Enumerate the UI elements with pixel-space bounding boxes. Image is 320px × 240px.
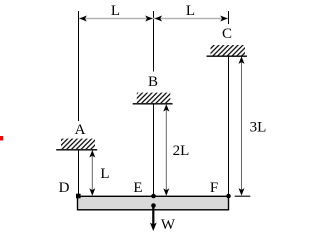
weight W arrow shaft bbox=[152, 206, 154, 226]
arrowhead top-left pointing left bbox=[79, 16, 87, 22]
dimension 3L bottom extension tick bbox=[235, 195, 251, 197]
svg-text:W: W bbox=[161, 217, 176, 233]
dimension 3L arrow up bbox=[239, 56, 245, 64]
extension tick right (x=228.5) bbox=[228, 11, 230, 24]
joint D square dot bbox=[76, 194, 81, 199]
extension line left (x=78.5) bbox=[78, 11, 80, 121]
svg-text:D: D bbox=[59, 180, 70, 196]
support A hatch bbox=[61, 139, 95, 149]
joint E round dot bbox=[151, 194, 156, 199]
top dimension line (gray) bbox=[79, 18, 228, 20]
red marker left edge bbox=[0, 136, 3, 141]
support C hatch bbox=[211, 45, 246, 56]
support B ceiling line bbox=[133, 103, 173, 105]
arrowhead first-L right pointing right bbox=[145, 16, 153, 22]
svg-text:L: L bbox=[186, 3, 195, 19]
rod C (F) bbox=[228, 57, 230, 197]
joint F round dot bbox=[226, 194, 231, 199]
svg-text:L: L bbox=[100, 166, 109, 182]
support C ceiling line bbox=[207, 55, 248, 57]
svg-text:3L: 3L bbox=[250, 120, 267, 136]
support A ceiling line bbox=[56, 149, 97, 151]
arrowhead second-L left pointing left bbox=[155, 16, 163, 22]
dimension 2L vertical shaft bbox=[165, 106, 167, 195]
dimension 3L arrow down bbox=[239, 188, 245, 196]
weight W arrowhead bbox=[150, 223, 157, 232]
svg-text:E: E bbox=[133, 180, 142, 196]
dimension 2L arrow down bbox=[163, 188, 169, 196]
dimension 3L vertical shaft bbox=[241, 58, 243, 195]
extension line middle (x=153.5) bbox=[153, 11, 155, 72]
dimension L vertical shaft bbox=[91, 152, 93, 195]
support B hatch bbox=[137, 93, 171, 103]
svg-text:L: L bbox=[111, 3, 120, 19]
svg-text:2L: 2L bbox=[173, 143, 190, 159]
rod A (D) bbox=[78, 150, 80, 196]
dimension 2L arrow up bbox=[163, 104, 169, 112]
rod B (E) bbox=[153, 104, 155, 196]
dimension L arrow down bbox=[89, 188, 95, 196]
svg-text:A: A bbox=[75, 122, 86, 138]
svg-text:C: C bbox=[222, 26, 232, 42]
svg-text:B: B bbox=[148, 74, 158, 90]
rigid bar DEF bbox=[78, 196, 229, 210]
dimension L arrow up bbox=[89, 150, 95, 158]
load point dot on bar bbox=[151, 203, 156, 208]
svg-text:F: F bbox=[210, 180, 218, 196]
arrowhead top-right pointing right bbox=[220, 16, 228, 22]
